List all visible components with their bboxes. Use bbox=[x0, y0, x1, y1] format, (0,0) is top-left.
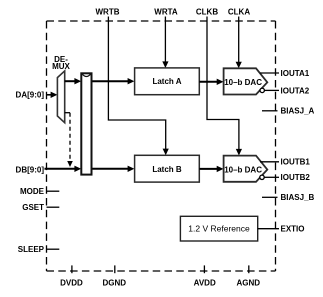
pin label IOUTB2 bbox=[281, 173, 311, 182]
svg-text:GSET: GSET bbox=[22, 203, 44, 212]
svg-text:DB[9:0]: DB[9:0] bbox=[16, 165, 45, 174]
wire CLKA to 10-b DAC A bbox=[236, 17, 242, 69]
svg-text:SLEEP: SLEEP bbox=[18, 245, 45, 254]
svg-text:IOUTA2: IOUTA2 bbox=[281, 87, 310, 96]
pin label WRTA bbox=[154, 8, 178, 17]
svg-text:IOUTA1: IOUTA1 bbox=[281, 69, 310, 78]
demux symbol bbox=[57, 71, 64, 123]
wire EXTIO bbox=[258, 228, 279, 230]
svg-text:10–b DAC: 10–b DAC bbox=[224, 78, 262, 87]
wire DA input to DE-MUX bbox=[46, 92, 57, 98]
wire CLKB to 10-b DAC B bbox=[207, 17, 242, 156]
wire DGND tick bbox=[114, 265, 116, 273]
pin label IOUTA1 bbox=[281, 69, 310, 78]
wire SLEEP tick bbox=[47, 248, 60, 250]
wire Latch A to DAC A bbox=[199, 79, 223, 85]
pin label IOUTA2 bbox=[281, 87, 310, 96]
pin label BIASJ_B bbox=[281, 193, 315, 202]
pin label BIASJ_A bbox=[281, 107, 315, 116]
svg-text:WRTB: WRTB bbox=[96, 8, 120, 17]
wire bus pipe to Latch B bbox=[92, 166, 135, 172]
wire DB input to bus pipe bbox=[45, 166, 82, 172]
latch A bbox=[135, 68, 200, 95]
pin label GSET bbox=[22, 203, 44, 212]
wire IOUTA1 bbox=[260, 72, 279, 74]
svg-text:10–b DAC: 10–b DAC bbox=[224, 166, 262, 175]
inverter bubble IOUTB2 bbox=[260, 175, 264, 179]
pin label DGND bbox=[103, 279, 127, 288]
DE-MUX label bbox=[52, 55, 70, 71]
outer dashed device boundary bbox=[47, 21, 276, 271]
pin label MODE bbox=[20, 187, 45, 196]
svg-text:Latch A: Latch A bbox=[152, 77, 181, 86]
wire AGND tick bbox=[248, 265, 250, 273]
svg-text:AVDD: AVDD bbox=[194, 279, 216, 288]
pin label DA[9:0] bbox=[16, 91, 45, 100]
10-b DAC A bbox=[224, 68, 268, 94]
pin label AVDD bbox=[194, 279, 216, 288]
wire demux lower output (dashed interleave path) bbox=[65, 113, 73, 167]
wire GSET tick bbox=[47, 206, 60, 208]
wire bus pipe to Latch A bbox=[92, 78, 135, 84]
1.2 V reference box bbox=[180, 216, 257, 241]
latch B bbox=[135, 155, 200, 182]
wire IOUTA2 bbox=[265, 89, 279, 91]
wire WRTB to Latch B bbox=[108, 17, 168, 156]
svg-text:AGND: AGND bbox=[237, 279, 261, 288]
svg-text:CLKA: CLKA bbox=[228, 8, 250, 17]
svg-text:MUX: MUX bbox=[52, 62, 70, 71]
svg-text:BIASJ_B: BIASJ_B bbox=[281, 193, 315, 202]
wire BIASJ_A tick bbox=[262, 110, 278, 112]
svg-text:Latch B: Latch B bbox=[152, 165, 182, 174]
svg-text:BIASJ_A: BIASJ_A bbox=[281, 107, 315, 116]
wire demux upper output to bus pipe bbox=[65, 78, 82, 84]
svg-text:1.2 V Reference: 1.2 V Reference bbox=[188, 224, 250, 234]
svg-text:DVDD: DVDD bbox=[60, 279, 83, 288]
inverter bubble IOUTA2 bbox=[260, 88, 264, 92]
pin label EXTIO bbox=[281, 225, 305, 234]
pin label DVDD bbox=[60, 279, 83, 288]
pin label WRTB bbox=[96, 8, 120, 17]
bus pipe bbox=[81, 73, 91, 174]
wire IOUTB1 bbox=[260, 161, 279, 163]
pin label AGND bbox=[237, 279, 261, 288]
pin label SLEEP bbox=[18, 245, 45, 254]
pin label CLKB bbox=[196, 8, 218, 17]
pin label CLKA bbox=[228, 8, 250, 17]
wire WRTA to Latch A bbox=[162, 17, 168, 69]
pin label IOUTB1 bbox=[281, 158, 311, 167]
10-b DAC B bbox=[224, 156, 268, 182]
svg-text:MODE: MODE bbox=[20, 187, 45, 196]
wire Latch B to DAC B bbox=[199, 166, 223, 172]
svg-text:WRTA: WRTA bbox=[154, 8, 178, 17]
wire AVDD tick bbox=[203, 265, 205, 273]
svg-text:DA[9:0]: DA[9:0] bbox=[16, 91, 45, 100]
wire MODE tick bbox=[47, 190, 60, 192]
svg-text:CLKB: CLKB bbox=[196, 8, 218, 17]
svg-text:DGND: DGND bbox=[103, 279, 127, 288]
wire DVDD tick bbox=[71, 265, 73, 273]
pin label DB[9:0] bbox=[16, 165, 45, 174]
svg-text:EXTIO: EXTIO bbox=[281, 225, 305, 234]
svg-text:IOUTB2: IOUTB2 bbox=[281, 173, 311, 182]
wire BIASJ_B tick bbox=[262, 196, 278, 198]
svg-text:IOUTB1: IOUTB1 bbox=[281, 158, 311, 167]
wire IOUTB2 bbox=[264, 176, 279, 178]
